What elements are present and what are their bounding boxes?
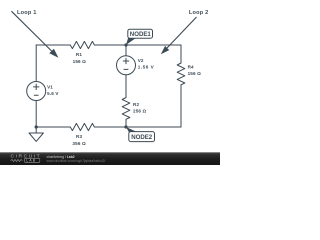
wire left rail lower [35, 101, 37, 128]
svg-text:LAB: LAB [26, 159, 36, 163]
resistor R1 [70, 41, 94, 48]
svg-text:V2: V2 [138, 58, 144, 63]
node flag NODE1 [126, 29, 153, 45]
svg-text:Loop 2: Loop 2 [189, 10, 209, 16]
annotation Loop 2 [161, 10, 209, 54]
svg-text:156 Ω: 156 Ω [73, 59, 87, 64]
wire middle branch upper [125, 45, 127, 56]
resistor R3 [70, 123, 94, 130]
wire middle branch lower [125, 119, 127, 127]
wire top left segment [36, 44, 70, 46]
svg-text:V1: V1 [47, 84, 53, 89]
wire middle branch middle [125, 75, 127, 98]
resistor R4 [177, 63, 185, 85]
wire right rail upper [180, 45, 182, 63]
svg-text:Loop 1: Loop 1 [17, 10, 37, 16]
ground [35, 127, 37, 133]
svg-text:156 Ω: 156 Ω [188, 71, 202, 76]
junction node at ground [35, 125, 38, 128]
wire bottom left segment [36, 126, 70, 128]
svg-text:R3: R3 [76, 134, 82, 139]
wire left rail upper [35, 45, 37, 82]
footer logo zigzag [11, 159, 23, 161]
svg-text:NODE2: NODE2 [131, 134, 153, 141]
footer logo LAB [24, 158, 39, 162]
junction node at NODE2 [124, 125, 127, 128]
wire right rail lower [180, 85, 182, 127]
annotation Loop 1 [11, 10, 58, 58]
svg-text:www.circuitlab.com/c/cgh7jlqkf: www.circuitlab.com/c/cgh7jlqkfaa9utdx42/ [47, 159, 106, 163]
voltage source V2 [117, 56, 136, 75]
node flag NODE2 [126, 127, 155, 142]
svg-text:256 Ω: 256 Ω [133, 109, 147, 114]
svg-text:R1: R1 [76, 52, 82, 57]
wire bottom right segment [126, 126, 181, 128]
svg-text:1.56 V: 1.56 V [138, 64, 155, 69]
svg-text:356 Ω: 356 Ω [72, 141, 86, 146]
wire top right segment [94, 44, 181, 46]
svg-text:R2: R2 [133, 102, 139, 107]
svg-text:R4: R4 [188, 65, 194, 70]
voltage source V1 [27, 82, 46, 101]
wire bottom middle segment [94, 126, 126, 128]
junction node at NODE1 [124, 43, 127, 46]
svg-text:5.6 V: 5.6 V [47, 91, 59, 96]
resistor R2 [122, 98, 130, 120]
svg-text:NODE1: NODE1 [130, 31, 152, 38]
